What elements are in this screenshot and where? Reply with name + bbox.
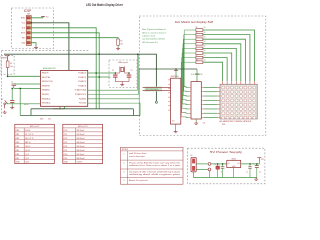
microcontroller U1 body — [41, 70, 88, 106]
resistor R1 reset pullup — [6, 58, 9, 76]
wire MCU right net 2 — [88, 54, 139, 94]
wire IC3 to matrix row 3 — [204, 95, 218, 97]
wire bottom rail lower — [20, 114, 140, 116]
battery B1 — [191, 157, 196, 172]
wire c6 top — [256, 164, 258, 166]
svg-text:VCC: VCC — [46, 16, 49, 18]
svg-text:a deeper circuit: a deeper circuit — [142, 35, 155, 38]
svg-text:IC2: IC2 — [172, 121, 175, 123]
VCC stub IC3 — [196, 69, 198, 82]
wire IC2 out 1 to R3 — [184, 30, 196, 87]
svg-text:3: 3 — [124, 172, 125, 174]
wire IC2 out 8 to R10 — [181, 62, 196, 117]
VCC bar IC3 — [195, 73, 199, 75]
wire IC3 to matrix row 7 — [204, 112, 218, 114]
ground S1 — [3, 111, 7, 114]
matrix top pin 1 — [254, 81, 256, 84]
section border left vertical — [1, 51, 3, 118]
pin 1 MISO — [27, 17, 30, 19]
svg-text:C3: C3 — [131, 70, 133, 72]
svg-text:MCU to IC2: MCU to IC2 — [30, 125, 39, 128]
wire MCU right net 1 — [88, 54, 138, 90]
wire IC3 to matrix row 6 — [204, 108, 218, 110]
svg-text:PB7: PB7 — [16, 158, 19, 160]
LED matrix 8x8 circles — [222, 86, 256, 119]
wire IC2 to IC3 net 6 — [183, 107, 189, 110]
resistor R2 — [117, 39, 120, 47]
wire battery plus wire — [196, 163, 208, 165]
matrix top pin 8 — [222, 81, 224, 84]
svg-text:ULN 2803ADW: ULN 2803ADW — [191, 73, 203, 76]
IC2 right pin 8 — [181, 116, 183, 118]
svg-text:ATMEGA8-16PI: ATMEGA8-16PI — [43, 67, 56, 70]
notes table — [121, 147, 184, 184]
svg-text:PD1(TXD): PD1(TXD) — [79, 103, 86, 105]
IC3 left pin 1 — [189, 86, 191, 88]
wire net to MCU left — [16, 83, 40, 85]
IC2 left pin 3 — [168, 88, 170, 90]
resistor R7 — [196, 47, 203, 50]
wire R8 to matrix col 6 — [203, 53, 232, 81]
wire S1 net to MCU — [6, 103, 41, 105]
svg-text:150: 150 — [203, 50, 205, 52]
IC2 right pin 2 — [181, 90, 183, 92]
wire c7 bottom stub — [217, 169, 219, 177]
matrix left pin 8 — [217, 117, 220, 119]
connector X1 jack — [208, 163, 211, 171]
junction — [7, 76, 9, 78]
IC3 left pin 8 — [189, 117, 191, 119]
regulator IC4 7805 body — [227, 160, 241, 167]
wire IC2 out 2 to R4 — [184, 35, 196, 91]
IC2 left pin 8 — [168, 109, 170, 111]
capacitor C1 — [12, 84, 17, 88]
wire VCC rail — [4, 54, 156, 101]
svg-text:IN8 Row8: IN8 Row8 — [77, 158, 85, 160]
IC2 left pin 1 — [168, 79, 170, 81]
IC2 left pin 6 — [168, 100, 170, 102]
VCC stub IC2 — [175, 69, 177, 78]
svg-text:2: 2 — [124, 163, 125, 165]
IC2 right pin 4 — [181, 99, 183, 101]
IC3 right pin 2 — [201, 91, 203, 93]
junction — [249, 163, 251, 165]
matrix left pin 1 — [217, 86, 220, 88]
svg-text:IN2 Row2: IN2 Row2 — [77, 134, 85, 136]
switch S1 — [4, 101, 8, 109]
pin 6 GND — [27, 42, 30, 44]
VCC symbol reset — [6, 56, 10, 59]
wire IC2 gnd stub — [175, 124, 177, 130]
resistor R10 — [196, 61, 203, 64]
matrix left pin 5 — [217, 104, 220, 106]
svg-text:IN6 Row6: IN6 Row6 — [77, 150, 85, 152]
wire reg out to VCC — [241, 160, 260, 164]
svg-text:PC1: PC1 — [64, 134, 68, 136]
junction — [175, 68, 177, 70]
junction — [217, 163, 219, 165]
svg-text:4: 4 — [124, 180, 125, 182]
junction — [128, 72, 130, 74]
svg-text:IN5 Row5: IN5 Row5 — [77, 146, 85, 148]
svg-text:PB4(MISO): PB4(MISO) — [42, 90, 50, 92]
wire IC2 out 5 to R7 — [182, 48, 195, 104]
wire IC2 to IC3 net 8 — [183, 116, 189, 119]
ground S2 — [10, 106, 14, 109]
section border horizontal — [2, 50, 89, 52]
svg-text:MR 10: MR 10 — [25, 142, 30, 144]
section box crystal oscillator — [109, 60, 137, 88]
IC3 ULN2803A body — [191, 82, 201, 119]
svg-text:+: + — [253, 163, 254, 165]
svg-text:Note: Physical installation of: Note: Physical installation of — [142, 28, 166, 31]
svg-text:150: 150 — [203, 59, 205, 61]
wire IC3 gnd stub — [195, 119, 197, 122]
matrix left pin 6 — [217, 108, 220, 110]
wire ICSP pin2 to MCU top — [31, 23, 69, 71]
wire bottom rail left vert — [30, 109, 32, 116]
wire reset net to MCU — [8, 75, 41, 77]
wire bottom rail upper — [31, 108, 133, 110]
wire c1 stub — [14, 83, 16, 85]
IC3 left pin 6 — [189, 108, 191, 110]
svg-text:RESET: RESET — [24, 104, 29, 106]
svg-text:PB6: PB6 — [16, 154, 19, 156]
IC3 right pin 4 — [201, 99, 203, 101]
IC2 left pin 2 — [168, 83, 170, 85]
wire c6 bottom — [256, 168, 258, 178]
IC3 right pin 3 — [201, 95, 203, 97]
capacitor C6 electrolytic — [255, 166, 259, 168]
svg-text:COM 9: COM 9 — [77, 162, 83, 164]
IC2 right pin 6 — [181, 107, 183, 109]
svg-text:R5: R5 — [196, 36, 198, 38]
svg-text:SV1: SV1 — [27, 14, 30, 16]
svg-text:PB1: PB1 — [16, 134, 19, 136]
svg-text:PB0(ICP): PB0(ICP) — [42, 73, 49, 75]
wire XTAL1 net — [88, 72, 115, 74]
svg-text:LED dot matrix ICs: LED dot matrix ICs — [142, 41, 158, 44]
wire IC2 out 3 to R5 — [183, 39, 196, 95]
svg-text:R3: R3 — [196, 27, 198, 29]
capacitor C2 — [113, 75, 118, 77]
wire R7 to matrix col 5 — [203, 48, 236, 81]
section box ICSP — [12, 8, 54, 49]
IC3 right pin 6 — [201, 108, 203, 110]
IC3 left pin 3 — [189, 95, 191, 97]
matrix left pin 2 — [217, 91, 220, 93]
wire IC2 to IC3 net 1 — [183, 86, 189, 89]
wire ICSP pin5 net to R2 — [31, 38, 118, 39]
IC3 right pin 1 — [201, 86, 203, 88]
svg-text:PB5: PB5 — [16, 150, 19, 152]
wire supply ground rail — [194, 172, 257, 178]
wire IC2 to IC3 net 2 — [183, 90, 189, 93]
svg-text:PB3(MOSI): PB3(MOSI) — [42, 85, 50, 87]
junction — [98, 76, 100, 78]
svg-text:R7: R7 — [196, 46, 198, 48]
wire IC3 to matrix row 5 — [204, 104, 218, 106]
svg-text:5V Power Supply: 5V Power Supply — [210, 150, 243, 154]
svg-text:PD1: PD1 — [64, 158, 68, 160]
wire c4 bottom — [222, 168, 224, 177]
svg-text:DS 14: DS 14 — [25, 130, 30, 132]
svg-text:DIS1: DIS1 — [222, 124, 226, 126]
junction — [19, 88, 21, 90]
capacitor C7 — [216, 166, 220, 169]
section box 5V Power Supply — [188, 148, 265, 184]
svg-text:OE 13: OE 13 — [25, 146, 30, 148]
svg-text:IN7 Row7: IN7 Row7 — [77, 154, 85, 156]
svg-text:10k: 10k — [120, 43, 123, 45]
wire MCU right net 3 — [88, 99, 140, 116]
svg-text:ROWSEL: ROWSEL — [146, 89, 160, 91]
resistor R4 — [196, 33, 203, 36]
svg-text:C2: C2 — [112, 70, 114, 72]
ground R2 — [116, 47, 120, 50]
matrix top pin 3 — [244, 81, 246, 84]
IC2 left pin 4 — [168, 92, 170, 94]
svg-text:Q0 15: Q0 15 — [25, 150, 30, 152]
svg-text:150: 150 — [203, 32, 205, 34]
wire IC3 to matrix row 8 — [204, 117, 218, 119]
svg-text:PB2: PB2 — [16, 138, 19, 140]
VCC bar IC2 — [174, 70, 178, 72]
wire c7 top stub — [217, 164, 219, 166]
svg-text:ICSP: ICSP — [24, 9, 31, 13]
svg-text:NOTES: NOTES — [122, 149, 129, 151]
crystal Q1 — [120, 67, 125, 73]
wire ICSP pin6 to ground — [31, 43, 36, 46]
pin 5 RST — [27, 37, 30, 39]
svg-text:R1: R1 — [10, 63, 12, 65]
ground IC3 — [194, 122, 198, 125]
svg-text:74HC595N: 74HC595N — [171, 76, 180, 78]
svg-text:R6: R6 — [196, 41, 198, 43]
resistor R9 — [196, 56, 203, 59]
wire c5 bottom — [249, 168, 251, 177]
junction — [95, 72, 97, 74]
VCC symbol ICSP — [41, 15, 45, 17]
matrix left pin 3 — [217, 95, 220, 97]
wire c4 top — [222, 164, 224, 167]
crystal circuit wires — [115, 73, 129, 83]
IC2 right pin 1 — [181, 86, 183, 88]
svg-text:S1: S1 — [1, 99, 3, 101]
wire XTAL2 net — [88, 76, 111, 78]
wire MCU GND stub — [59, 106, 61, 109]
capacitor C4 — [221, 167, 225, 168]
svg-text:78L05: 78L05 — [231, 158, 236, 160]
svg-text:PC4: PC4 — [64, 146, 68, 148]
wire MCU right net 4 — [88, 103, 140, 115]
wire IC2 out 7 to R9 — [182, 58, 196, 113]
svg-text:C5: C5 — [246, 172, 248, 174]
connector SV1 ICSP body — [26, 16, 31, 46]
VCC symbol supply — [257, 158, 261, 161]
resistor R5 — [196, 38, 203, 41]
svg-text:150: 150 — [203, 55, 205, 57]
wire VCC wire to ICs — [139, 68, 197, 70]
svg-text:IN4 Row4: IN4 Row4 — [77, 142, 85, 144]
svg-text:Q3 3: Q3 3 — [25, 162, 29, 164]
wire jack minus down — [209, 171, 211, 178]
wire IC2 to IC3 net 4 — [183, 99, 189, 102]
svg-text:PB3: PB3 — [16, 142, 19, 144]
svg-text:R4: R4 — [196, 32, 198, 34]
junction — [31, 22, 33, 24]
wire R3 to matrix col 1 — [203, 30, 255, 81]
matrix top pin 6 — [231, 81, 233, 84]
wire IC2 out 6 to R8 — [182, 53, 196, 108]
svg-text:IN3 Row3: IN3 Row3 — [77, 138, 85, 140]
junction — [156, 68, 158, 70]
wire data to IC2 — [143, 86, 171, 88]
IC3 right pin 7 — [201, 112, 203, 114]
capacitor C5 — [248, 167, 252, 168]
IC2 left pin 5 — [168, 96, 170, 98]
svg-text:RST: RST — [22, 37, 25, 39]
svg-text:150: 150 — [203, 27, 205, 29]
wire jack to regulator — [211, 163, 227, 165]
wire ICSP pin1 to VCC — [31, 16, 43, 18]
ground crystal — [120, 83, 124, 86]
svg-text:R8: R8 — [196, 50, 198, 52]
wire c5 top — [249, 164, 251, 167]
resistor R3 — [196, 29, 203, 32]
svg-text:IC3: IC3 — [203, 123, 206, 125]
junction — [137, 53, 139, 55]
svg-text:ST_CP 12: ST_CP 12 — [25, 134, 33, 136]
matrix left pin 7 — [217, 112, 220, 114]
svg-text:R10: R10 — [196, 59, 199, 61]
wire IC3 to matrix row 2 — [204, 91, 218, 93]
wire battery minus wire — [196, 168, 208, 170]
svg-text:C7: C7 — [221, 172, 223, 174]
wire IC2 to IC3 net 3 — [183, 94, 189, 97]
svg-text:MOSI: MOSI — [21, 32, 26, 34]
junction — [11, 88, 13, 90]
junction — [115, 72, 117, 74]
pin 3 SCK — [27, 27, 30, 29]
wire ICSP pin4 net — [31, 33, 99, 109]
svg-text:150: 150 — [203, 41, 205, 43]
ground ICSP — [34, 46, 38, 49]
wire IC2 to IC3 net 5 — [183, 103, 189, 106]
svg-text:PB4: PB4 — [16, 146, 19, 148]
svg-text:R9: R9 — [196, 55, 198, 57]
pushbutton S2 — [10, 101, 14, 103]
IC3 left pin 2 — [189, 91, 191, 93]
wire R6 to matrix col 4 — [203, 44, 241, 81]
resistor R8 — [196, 52, 203, 55]
svg-text:PC2: PC2 — [64, 138, 68, 140]
IC3 right pin 8 — [201, 117, 203, 119]
IC3 right pin 5 — [201, 104, 203, 106]
pin 4 MOSI — [27, 32, 30, 34]
svg-text:C1: C1 — [11, 81, 13, 83]
svg-text:PB0: PB0 — [16, 130, 19, 132]
svg-text:PC0: PC0 — [64, 130, 68, 132]
svg-text:PD0(RXD): PD0(RXD) — [79, 98, 87, 100]
IC2 right pin 3 — [181, 94, 183, 96]
svg-text:150: 150 — [203, 46, 205, 48]
pin 2 VCC — [27, 22, 30, 24]
matrix top pin 2 — [249, 81, 251, 84]
IC2 left pin 7 — [168, 105, 170, 107]
junction — [222, 163, 224, 165]
IC2 right pin 7 — [181, 112, 183, 114]
svg-text:Q1 1: Q1 1 — [25, 154, 29, 156]
svg-text:SH_CP 11: SH_CP 11 — [25, 138, 33, 140]
IC2 right pin 5 — [181, 103, 183, 105]
svg-text:LED Dot Matrix Display Driver: LED Dot Matrix Display Driver — [86, 3, 123, 7]
svg-text:GND: GND — [16, 162, 21, 164]
wire IC3 to matrix row 1 — [204, 86, 218, 88]
via circle — [155, 101, 157, 103]
wire IC2 to IC3 net 7 — [183, 112, 189, 115]
wire R5 to matrix col 3 — [203, 39, 245, 81]
IC3 left pin 5 — [189, 104, 191, 106]
matrix top pin 7 — [226, 81, 228, 84]
resistor R6 — [196, 43, 203, 46]
LED matrix DIS1 body — [220, 84, 257, 119]
svg-text:R2: R2 — [120, 41, 122, 43]
net highlight band — [145, 87, 163, 92]
IC3 left pin 7 — [189, 112, 191, 114]
section box reset — [1, 55, 14, 74]
svg-text:RESET: RESET — [2, 57, 7, 59]
svg-text:PB2(SS/OC1B): PB2(SS/OC1B) — [42, 81, 53, 83]
svg-text:PB5(SCK): PB5(SCK) — [42, 94, 49, 96]
svg-text:can also build this with 8x8: can also build this with 8x8 — [142, 38, 165, 41]
svg-text:IN1 Row1: IN1 Row1 — [77, 130, 85, 132]
matrix top pin 5 — [235, 81, 237, 84]
svg-text:LED’s in a matrix is shown in: LED’s in a matrix is shown in — [142, 31, 166, 34]
svg-text:MCU to IC3: MCU to IC3 — [78, 125, 87, 128]
wire reg gnd down — [233, 168, 235, 178]
svg-text:PC5: PC5 — [64, 150, 68, 152]
junction — [98, 53, 100, 55]
wire ICSP pin3 net — [31, 28, 96, 109]
table MCU to IC2 pin map — [15, 124, 55, 163]
svg-text:10k: 10k — [10, 66, 13, 68]
wire C1 net to MCU — [14, 87, 41, 89]
junction — [256, 163, 258, 165]
svg-text:150: 150 — [203, 36, 205, 38]
svg-text:PC3: PC3 — [64, 142, 68, 144]
wire S2 stub bottom — [11, 103, 13, 106]
wire IC2 out 4 to R6 — [183, 44, 196, 100]
IC2 74HC595 body — [171, 78, 181, 124]
wire MCU VCC stub — [64, 106, 66, 109]
wire drop to bottom rail — [19, 88, 21, 115]
wire S2 stub top — [11, 88, 13, 100]
svg-text:Dot Matrix led display 8x8: Dot Matrix led display 8x8 — [175, 20, 214, 24]
svg-text:PD0: PD0 — [64, 154, 68, 156]
wire R9 to matrix col 7 — [203, 58, 227, 82]
svg-text:C6: C6 — [259, 172, 261, 174]
wire IC3 to matrix row 4 — [204, 99, 218, 101]
wire bottom rail right vert — [132, 109, 134, 116]
wire R4 to matrix col 2 — [203, 35, 250, 82]
svg-text:1: 1 — [124, 154, 125, 156]
svg-text:GND: GND — [64, 162, 69, 164]
capacitor C3 — [127, 75, 132, 77]
ground supply — [254, 178, 258, 181]
table MCU to IC3 pin map — [63, 124, 103, 163]
svg-text:Q2 2: Q2 2 — [25, 158, 29, 160]
